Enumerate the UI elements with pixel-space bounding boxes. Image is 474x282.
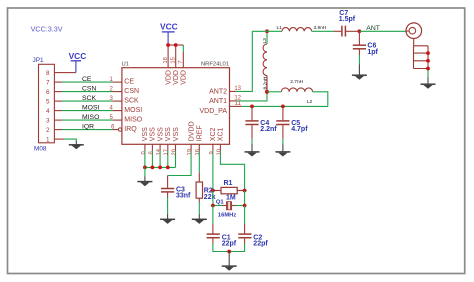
- junction shield 1: [426, 51, 430, 55]
- svg-text:SCK: SCK: [82, 95, 96, 102]
- svg-text:VSS: VSS: [142, 127, 149, 141]
- junction VSS bus 3: [158, 166, 162, 170]
- crystal Q1: [227, 201, 232, 210]
- pin number 15 (rotated): [171, 57, 177, 63]
- svg-text:MISO: MISO: [82, 114, 99, 121]
- svg-text:2.2nf: 2.2nf: [260, 126, 277, 133]
- svg-text:8: 8: [148, 151, 154, 154]
- pin number 12: [234, 96, 241, 102]
- wire VSS column pin17: [167, 144, 169, 167]
- wire MISO: [54, 119, 122, 121]
- wire VDD stub pin18: [167, 45, 169, 68]
- pin number 9 (rotated): [209, 151, 215, 154]
- svg-text:4.7pf: 4.7pf: [291, 126, 308, 133]
- junction L3 bottom: [265, 90, 269, 94]
- pin number 19 (rotated): [187, 149, 193, 155]
- inductor L1: [282, 28, 312, 32]
- net label IQR: [82, 124, 94, 131]
- svg-text:IQR: IQR: [82, 124, 94, 131]
- svg-text:VDD_PA: VDD_PA: [200, 108, 228, 115]
- wire VDD_PA rail: [230, 105, 328, 107]
- pin number 20 (rotated): [171, 149, 177, 155]
- pin number 17 (rotated): [164, 149, 170, 155]
- svg-text:1.5pf: 1.5pf: [339, 16, 356, 23]
- label M08: [34, 145, 47, 152]
- svg-text:NRF24L01: NRF24L01: [201, 62, 229, 68]
- capacitor C7: [342, 26, 346, 37]
- wire JP1 pin8 to VCC: [54, 72, 76, 74]
- svg-text:JP1: JP1: [33, 57, 44, 64]
- svg-text:R1: R1: [224, 180, 233, 187]
- svg-text:VDD: VDD: [165, 70, 172, 85]
- svg-text:0: 0: [141, 151, 147, 154]
- junction C4 tap: [250, 105, 254, 109]
- ground (C5): [275, 144, 290, 157]
- svg-text:3: 3: [46, 117, 50, 124]
- label NRF24L01: [201, 62, 229, 68]
- wire MOSI: [54, 110, 122, 112]
- value 1M: [226, 194, 236, 201]
- value 3.9nH: [314, 25, 327, 31]
- label C3: [176, 186, 185, 193]
- svg-text:1: 1: [46, 136, 50, 143]
- wire VDD bus: [168, 44, 183, 46]
- value 8.2nH (rotated): [263, 76, 269, 89]
- junction crystal right: [243, 204, 247, 208]
- wire ANT1 pin12 jog: [230, 92, 268, 101]
- svg-text:1M: 1M: [226, 194, 236, 201]
- wire crystal row right: [232, 191, 245, 206]
- svg-text:CSN: CSN: [124, 88, 139, 95]
- wire C6 drop: [358, 31, 360, 44]
- wire SCK: [54, 100, 122, 102]
- label R1: [224, 180, 233, 187]
- junction shield 2: [426, 59, 430, 63]
- svg-text:VCC: VCC: [160, 21, 178, 31]
- svg-text:6: 6: [46, 89, 50, 96]
- wire C1 column: [212, 206, 214, 234]
- svg-text:16MHz: 16MHz: [218, 212, 236, 218]
- IC pin names right: [200, 89, 228, 115]
- wire VSS column pin8: [151, 144, 153, 167]
- label Q1: [216, 199, 225, 205]
- pin number 0 (rotated): [141, 151, 147, 154]
- label C6: [367, 43, 376, 50]
- label C4: [260, 120, 269, 127]
- wire VSS column pin14: [159, 144, 161, 167]
- wire IQR: [54, 129, 118, 131]
- svg-text:9: 9: [209, 151, 215, 154]
- label C7: [339, 10, 348, 17]
- svg-text:CSN: CSN: [82, 86, 96, 93]
- capacitor C4: [245, 106, 258, 138]
- IC pin names left: [124, 79, 142, 134]
- svg-text:SCK: SCK: [124, 98, 139, 105]
- svg-text:VSS: VSS: [165, 127, 172, 141]
- svg-text:VCC:3.3V: VCC:3.3V: [31, 24, 63, 33]
- svg-text:7: 7: [178, 60, 184, 63]
- svg-text:MISO: MISO: [124, 117, 142, 124]
- ground (C6): [352, 65, 367, 80]
- wire JP1 pin1 to ground: [54, 139, 76, 141]
- wire C3 to ground: [167, 198, 169, 214]
- svg-text:U1: U1: [122, 62, 129, 68]
- junction C1C2 ground: [227, 250, 231, 254]
- wire C2 column: [244, 206, 246, 234]
- svg-text:CE: CE: [124, 79, 134, 86]
- ground (C4): [245, 144, 260, 157]
- pin number 5: [109, 115, 113, 121]
- ground (connector): [421, 77, 436, 89]
- wire C7 to junction: [346, 30, 359, 32]
- pin number 13: [234, 86, 241, 92]
- wire R2 to ground: [198, 198, 200, 214]
- svg-text:CE: CE: [82, 76, 92, 83]
- wire IREF pin16 to R2: [198, 144, 200, 182]
- value 22pf: [222, 241, 237, 248]
- svg-text:2: 2: [46, 127, 50, 134]
- wire ANT2 pin13 riser: [230, 31, 253, 91]
- wire top rail left: [252, 30, 282, 32]
- antenna connector X1: [406, 23, 422, 39]
- pin number 10 (rotated): [216, 149, 222, 155]
- svg-text:IRQ: IRQ: [124, 126, 137, 133]
- svg-text:VSS: VSS: [157, 127, 164, 141]
- resistor R2: [196, 182, 202, 198]
- wire DVDD pin19 jog to C3: [168, 144, 192, 188]
- value 22k: [204, 194, 216, 201]
- junction VSS bus 2: [151, 166, 155, 170]
- inversion bubble pin 6 IRQ: [118, 128, 121, 131]
- wire VSS column pin0: [144, 144, 146, 167]
- svg-text:VSS: VSS: [150, 127, 157, 141]
- svg-text:L2: L2: [307, 99, 313, 105]
- svg-text:ANT2: ANT2: [209, 89, 227, 96]
- junction shield 3: [426, 67, 430, 71]
- svg-text:VSS: VSS: [173, 127, 180, 141]
- net label VCC:3.3V: [31, 24, 63, 33]
- label C2: [253, 234, 262, 241]
- wire VDD stub pin15: [175, 45, 177, 68]
- ground (VSS bus): [137, 177, 152, 187]
- junction C5 tap: [281, 105, 285, 109]
- svg-text:VCC: VCC: [69, 51, 87, 61]
- value 16MHz: [218, 212, 236, 218]
- pin number 6: [111, 125, 115, 131]
- junction (VDD bus b): [174, 43, 178, 47]
- wire XC1 pin10 jog: [220, 144, 244, 190]
- net label CE: [82, 76, 92, 83]
- wire CE: [54, 81, 122, 83]
- net label ANT: [366, 25, 380, 32]
- value 22pf (C2): [253, 241, 268, 248]
- junction R1 right: [243, 189, 247, 193]
- svg-text:XC2: XC2: [210, 127, 217, 141]
- wire C4 to ground: [251, 139, 253, 145]
- svg-text:2.7nH: 2.7nH: [290, 79, 303, 85]
- svg-text:Q1: Q1: [216, 199, 225, 205]
- label L2: [307, 99, 313, 105]
- junction (VDD bus a): [166, 43, 170, 47]
- capacitor C1: [207, 234, 220, 243]
- net label CSN: [82, 86, 96, 93]
- pin number 16 (rotated): [195, 149, 201, 155]
- svg-text:DVDD: DVDD: [188, 121, 195, 141]
- junction R1 left: [211, 189, 215, 193]
- net label MISO: [82, 114, 99, 121]
- svg-text:8: 8: [46, 70, 50, 77]
- svg-text:L1: L1: [277, 25, 283, 31]
- wire CSN: [54, 91, 122, 93]
- junction L3 top: [265, 29, 269, 33]
- capacitor C6: [353, 45, 366, 55]
- svg-text:3.9nH: 3.9nH: [314, 25, 327, 31]
- svg-text:33nf: 33nf: [176, 192, 191, 199]
- svg-text:20: 20: [171, 149, 177, 155]
- svg-text:5: 5: [46, 98, 50, 105]
- svg-text:4: 4: [46, 108, 50, 115]
- label L1: [277, 25, 283, 31]
- capacitor C3: [161, 189, 174, 198]
- svg-text:MOSI: MOSI: [82, 105, 99, 112]
- label C5: [291, 120, 300, 127]
- IC pin names bottom (rotated): [142, 121, 225, 141]
- pin number 2: [109, 87, 113, 93]
- ground (R2): [192, 214, 207, 224]
- capacitor C5: [276, 106, 289, 138]
- label R2: [204, 187, 213, 194]
- pin number 18 (rotated): [163, 57, 169, 63]
- inductor L2: [267, 88, 328, 107]
- svg-text:IREF: IREF: [197, 125, 204, 141]
- ground (C3): [160, 214, 175, 224]
- net label MOSI: [82, 105, 99, 112]
- svg-text:17: 17: [164, 149, 170, 155]
- resistor R1: [213, 187, 245, 193]
- junction VSS bus 1: [143, 166, 147, 170]
- wire L1 to C7: [312, 30, 342, 32]
- value 1.5pf: [339, 16, 356, 23]
- svg-text:10: 10: [216, 149, 222, 155]
- svg-text:XC1: XC1: [218, 127, 225, 141]
- junction VSS bus 4: [166, 166, 170, 170]
- wire crystal row left: [213, 191, 226, 206]
- wire C5 to ground: [282, 139, 284, 145]
- value 2.7nH: [290, 79, 303, 85]
- svg-text:22pf: 22pf: [222, 241, 237, 248]
- svg-text:VDD: VDD: [173, 70, 180, 85]
- pin number 7 (rotated): [178, 60, 184, 63]
- svg-text:8.2nH: 8.2nH: [263, 76, 269, 89]
- power symbol VCC (JP1): [69, 51, 87, 73]
- connector JP1: [39, 64, 55, 143]
- net label SCK: [82, 95, 96, 102]
- wire VSS bus: [145, 166, 176, 168]
- IC pin names top VDD VDD VDD (rotated): [165, 70, 187, 85]
- junction C6 tap: [358, 29, 362, 33]
- wire C1 C2 common: [213, 244, 245, 252]
- label JP1: [33, 57, 44, 64]
- svg-text:7: 7: [46, 79, 50, 86]
- value 4.7pf: [291, 126, 308, 133]
- svg-text:ANT1: ANT1: [209, 98, 227, 105]
- wire VDD stub pin7: [182, 45, 184, 68]
- pin number 1: [109, 77, 113, 83]
- svg-text:16: 16: [195, 149, 201, 155]
- pin number 3: [109, 96, 113, 102]
- svg-text:14: 14: [156, 148, 162, 155]
- svg-text:L3: L3: [262, 38, 268, 44]
- svg-text:VDD: VDD: [181, 70, 188, 85]
- value 33nf: [176, 192, 191, 199]
- IC U1 NRF24L01 body: [122, 68, 230, 145]
- wire VSS column pin20: [175, 144, 177, 167]
- svg-text:22pf: 22pf: [253, 241, 268, 248]
- wire to antenna: [359, 30, 409, 32]
- wire C6 to ground: [358, 55, 360, 65]
- svg-text:M08: M08: [34, 145, 47, 152]
- ground (JP1): [69, 141, 84, 149]
- ground (C1 C2): [222, 252, 237, 271]
- svg-text:18: 18: [163, 57, 169, 63]
- inductor L3: [263, 31, 267, 92]
- pin number 11: [235, 101, 242, 107]
- power symbol VCC (above IC): [160, 21, 178, 45]
- capacitor C2: [238, 234, 251, 243]
- connector shield prongs: [414, 38, 429, 71]
- value 1pf: [367, 49, 378, 56]
- wire VSS bus to ground: [144, 167, 146, 176]
- label U1: [122, 62, 129, 68]
- svg-text:1pf: 1pf: [367, 49, 378, 56]
- pin number 14 (rotated): [156, 148, 162, 155]
- value 2.2nf: [260, 126, 277, 133]
- pin number 8 (rotated): [148, 151, 154, 154]
- wire shield to ground: [427, 71, 429, 78]
- junction crystal left: [211, 204, 215, 208]
- svg-text:MOSI: MOSI: [124, 107, 142, 114]
- wire XC2 pin9 column: [212, 144, 214, 190]
- label L3 (rotated): [262, 38, 268, 44]
- pin number 4: [109, 106, 113, 112]
- svg-text:15: 15: [171, 57, 177, 63]
- label C1: [222, 234, 231, 241]
- svg-text:22k: 22k: [204, 194, 216, 201]
- svg-text:19: 19: [187, 149, 193, 155]
